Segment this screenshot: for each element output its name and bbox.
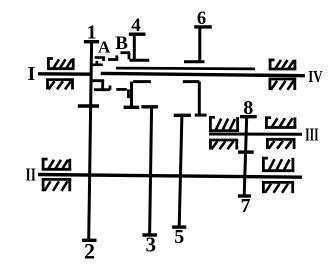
gear 6 upper line — [198, 27, 201, 62]
gear 6 hub bar upper — [184, 60, 205, 63]
shaft I segment (input side) — [38, 72, 93, 76]
svg-text:8: 8 — [243, 97, 253, 119]
gear 3 line — [150, 107, 152, 235]
gear 6 bottom bar — [195, 114, 207, 117]
gear 3 bottom bar — [142, 233, 157, 236]
clutch A upper: right claw riser — [96, 61, 99, 66]
svg-text:B: B — [115, 33, 128, 54]
clutch B upper: right claw riser — [115, 55, 118, 59]
bearing shaft II left upper box — [42, 158, 72, 169]
gear 4 upper line — [133, 34, 136, 60]
clutch A lower: riser — [109, 86, 112, 90]
svg-text:3: 3 — [145, 233, 156, 257]
svg-text:4: 4 — [131, 15, 141, 36]
clutch A lower: leg — [91, 79, 105, 82]
bearing shaft II right lower box — [262, 182, 294, 193]
bearing shaft III left upper box — [209, 117, 239, 131]
gear 2 bottom bar — [82, 239, 97, 242]
gear 3 top bar — [141, 105, 158, 108]
bearing shaft IV lower box — [269, 79, 297, 90]
bearing shaft I lower box — [46, 80, 74, 90]
gear 5 bottom bar — [172, 225, 186, 228]
clutch B upper: right claw bar — [108, 58, 118, 61]
svg-text:7: 7 — [241, 195, 251, 217]
gear 1 top bar — [84, 40, 99, 43]
bearing shaft III left lower box — [209, 140, 238, 150]
shaft III — [209, 133, 302, 136]
bearing shaft I upper box — [47, 58, 75, 69]
gear 4 lower line — [130, 82, 133, 108]
gear 4 bottom bar — [124, 106, 140, 109]
svg-text:6: 6 — [197, 9, 206, 29]
bearing shaft III right upper box — [265, 117, 296, 128]
svg-text:IV: IV — [308, 67, 323, 86]
gear 4 top bar — [129, 33, 146, 36]
clutch B lower: connector — [128, 95, 131, 98]
gear 8-7 line — [244, 117, 247, 196]
clutch A lower: bar — [94, 88, 110, 91]
shaft II — [38, 175, 302, 178]
clutch B upper: left claw hook — [128, 53, 131, 60]
gear 6 hub bar lower — [183, 80, 200, 83]
gear 5 top bar — [174, 114, 191, 117]
svg-text:I: I — [28, 63, 36, 85]
bearing shaft II right upper box — [262, 157, 294, 170]
clutch B lower: bar — [116, 88, 127, 91]
clutch A upper: right claw leg — [91, 64, 103, 67]
clutch B lower: step — [127, 89, 130, 98]
shaft IV center line — [101, 73, 305, 75]
clutch A upper: left claw bar — [95, 56, 106, 59]
clutch B upper: left claw bar — [120, 51, 130, 54]
gear 8/7 mesh bar — [238, 150, 254, 153]
gear 1/2 mesh bar — [78, 104, 99, 107]
gear 6 lower line — [198, 82, 201, 116]
svg-text:III: III — [305, 124, 319, 144]
clutch A lower: hook — [101, 81, 104, 90]
gear 4 hub bar lower — [133, 80, 151, 83]
gear 1-2 line — [89, 42, 92, 241]
gear 7 bottom bar — [238, 194, 251, 197]
bearing shaft IV upper box — [269, 59, 297, 69]
svg-text:1: 1 — [87, 21, 97, 43]
svg-text:A: A — [98, 37, 111, 56]
gear 8 top bar — [240, 115, 257, 118]
bearing shaft III right lower box — [266, 139, 296, 149]
svg-text:2: 2 — [84, 238, 95, 263]
sleeve (hollow shaft) carrying gears 4 and 6 — [116, 67, 255, 71]
bearing shaft II left lower box — [42, 179, 72, 191]
gear 5 line — [179, 115, 182, 227]
clutch A upper: left claw hook — [102, 58, 105, 62]
svg-text:5: 5 — [174, 226, 184, 248]
gear 4 hub bar upper — [130, 59, 150, 62]
svg-text:II: II — [26, 165, 36, 185]
gear 6 top bar — [194, 25, 212, 28]
